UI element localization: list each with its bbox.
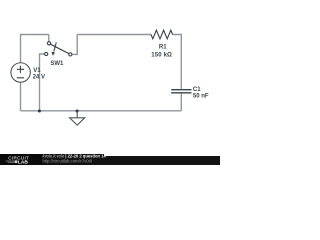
svg-text:24V: 24V xyxy=(33,74,45,80)
junction node A dot xyxy=(38,110,41,113)
wire capacitor to bottom rail xyxy=(180,94,182,111)
watermark banner xyxy=(0,156,220,165)
svg-text:50 nF: 50 nF xyxy=(193,94,209,100)
wire switch right to top rail xyxy=(72,35,77,55)
svg-text:SW1: SW1 xyxy=(50,61,64,67)
watermark line1 background xyxy=(38,154,104,158)
ground xyxy=(70,111,85,125)
svg-text:V1: V1 xyxy=(33,68,41,74)
wire V1 bottom lead xyxy=(20,82,22,111)
logo CircuitLab xyxy=(0,0,220,165)
wire bottom rail xyxy=(21,110,182,112)
svg-text:C1: C1 xyxy=(193,87,201,93)
wire switch lower-left to node xyxy=(40,54,45,111)
wire top rail to resistor xyxy=(77,34,151,36)
svg-text:150 kΩ: 150 kΩ xyxy=(151,52,172,58)
voltage source V1 xyxy=(11,63,30,82)
capacitor C1 xyxy=(171,90,191,93)
wire switch top stub xyxy=(48,35,50,42)
wire resistor to right corner xyxy=(173,35,182,89)
resistor R1 xyxy=(151,30,173,39)
wire top rail left segment xyxy=(21,35,49,63)
switch SW1 arrow head xyxy=(51,52,55,56)
logo box xyxy=(0,154,42,165)
switch SW1 xyxy=(45,42,72,56)
svg-text:R1: R1 xyxy=(159,45,167,51)
junction ground node dot xyxy=(76,110,79,113)
